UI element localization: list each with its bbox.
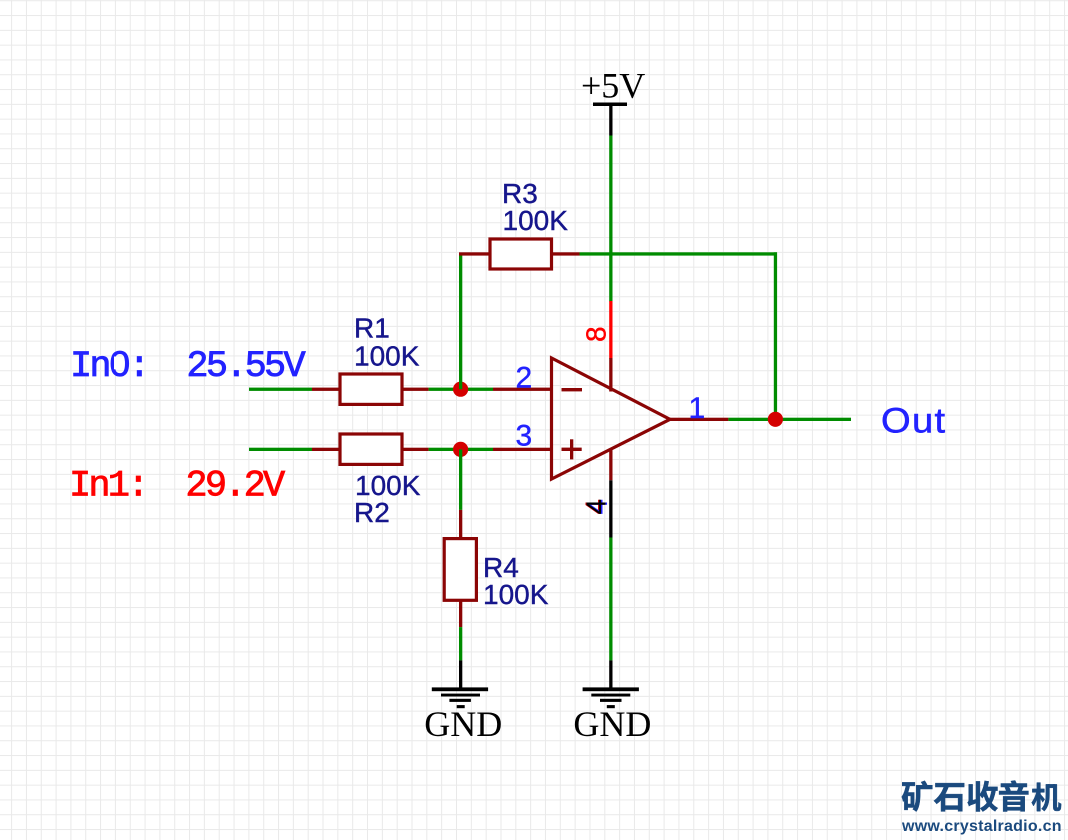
wire node A green segment bbox=[429, 388, 493, 391]
svg-text:100K: 100K bbox=[483, 579, 549, 610]
svg-text:4: 4 bbox=[581, 499, 612, 515]
op-amp minus sign bbox=[562, 388, 583, 391]
wire node B to R4 green bbox=[459, 449, 462, 510]
wire node B green segment bbox=[429, 448, 493, 451]
wire +5V net green vertical bbox=[609, 136, 612, 302]
ground right symbol bbox=[583, 687, 639, 708]
svg-text:GND: GND bbox=[424, 704, 502, 744]
wire R2 left stub maroon bbox=[312, 448, 340, 451]
svg-text:In0: 25.55V: In0: 25.55V bbox=[70, 346, 305, 388]
wire In1 input green bbox=[249, 448, 312, 451]
wire R4 bottom stub maroon bbox=[459, 600, 462, 627]
wire R1 right stub maroon bbox=[402, 388, 429, 391]
patch over mono zero dot bbox=[114, 357, 124, 370]
ground left symbol bbox=[432, 687, 488, 708]
wire output stub maroon bbox=[668, 418, 728, 421]
junction output dot bbox=[768, 412, 783, 427]
svg-text:8: 8 bbox=[581, 326, 612, 342]
wire output green bbox=[728, 418, 851, 421]
svg-text:Out: Out bbox=[881, 401, 946, 440]
svg-text:www.crystalradio.cn: www.crystalradio.cn bbox=[901, 818, 1062, 835]
svg-text:R2: R2 bbox=[354, 497, 390, 528]
power +5V lead bbox=[609, 103, 612, 136]
svg-text:In1: 29.2V: In1: 29.2V bbox=[69, 466, 285, 508]
junction node A dot bbox=[453, 382, 468, 397]
svg-text:100K: 100K bbox=[503, 205, 569, 236]
pin 8 stub maroon bbox=[609, 358, 612, 392]
op-amp plus sign bbox=[562, 448, 582, 451]
wire GND lead black bbox=[609, 660, 612, 688]
svg-text:1: 1 bbox=[689, 392, 706, 425]
wire R2 right stub maroon bbox=[402, 448, 429, 451]
wire pin2 stub maroon bbox=[493, 388, 552, 391]
svg-text:+5V: +5V bbox=[581, 66, 645, 106]
wire pin4 green segment bbox=[609, 538, 612, 661]
svg-text:GND: GND bbox=[573, 704, 651, 744]
resistor R3 bbox=[490, 239, 552, 269]
junction node B dot bbox=[453, 442, 468, 457]
watermark chinese logo (paths) bbox=[902, 781, 1061, 812]
wire feedback top green horizontal bbox=[580, 252, 778, 255]
resistor R1 bbox=[340, 374, 402, 404]
wire GND lead black left bbox=[459, 660, 462, 688]
wire pin4 stub maroon bbox=[609, 450, 612, 480]
wire pin4 black segment bbox=[609, 480, 612, 537]
wire feedback right vertical green bbox=[774, 252, 777, 419]
svg-text:100K: 100K bbox=[354, 341, 420, 372]
wire In0 input green bbox=[249, 388, 312, 391]
op-amp U1 triangle bbox=[552, 358, 671, 479]
svg-text:3: 3 bbox=[516, 420, 533, 453]
wire R1 left stub maroon bbox=[312, 388, 340, 391]
wire pin3 stub maroon bbox=[493, 448, 552, 451]
wire R3 left stub maroon bbox=[459, 252, 490, 255]
wire R4 top stub maroon bbox=[459, 510, 462, 539]
wire feedback left vertical green bbox=[459, 254, 462, 389]
svg-text:R1: R1 bbox=[354, 313, 390, 344]
power +5V bar symbol bbox=[593, 103, 627, 107]
resistor R4 bbox=[444, 539, 476, 601]
wire R4 to GND green bbox=[459, 627, 462, 660]
wire pin8 red segment bbox=[609, 301, 612, 359]
wire R3 right stub maroon bbox=[552, 252, 580, 255]
resistor R2 bbox=[340, 434, 402, 464]
svg-text:2: 2 bbox=[516, 362, 533, 395]
